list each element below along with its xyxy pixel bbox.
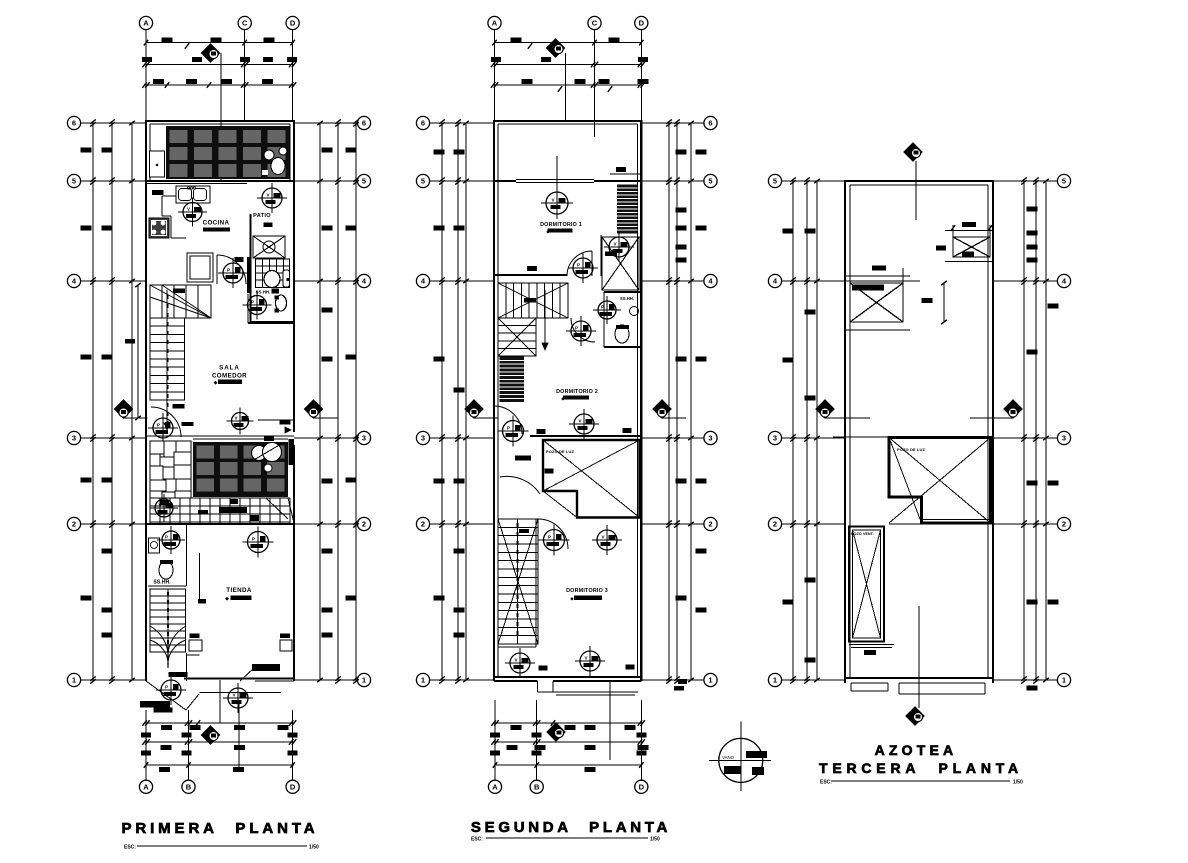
svg-text:3: 3: [421, 434, 425, 443]
svg-text:2: 2: [1062, 520, 1066, 529]
svg-text:5: 5: [421, 177, 425, 186]
svg-text:5: 5: [72, 177, 76, 186]
svg-text:1: 1: [362, 676, 366, 685]
svg-text:D: D: [290, 19, 296, 28]
svg-text:A: A: [143, 782, 149, 791]
svg-text:ESC:: ESC:: [124, 845, 136, 851]
svg-text:V: V: [601, 535, 604, 540]
svg-text:1: 1: [421, 676, 425, 685]
svg-text:SS.HH.: SS.HH.: [620, 296, 634, 301]
svg-text:POZO VENT.: POZO VENT.: [851, 532, 874, 536]
svg-text:V: V: [551, 198, 554, 203]
svg-text:P: P: [577, 263, 580, 268]
svg-text:A: A: [492, 19, 498, 28]
svg-text:ESC:: ESC:: [471, 837, 483, 843]
svg-text:1/50: 1/50: [1013, 780, 1023, 786]
svg-text:1: 1: [1062, 676, 1066, 685]
svg-text:◆: ◆: [546, 229, 550, 234]
svg-text:3: 3: [708, 434, 712, 443]
svg-text:5: 5: [708, 177, 712, 186]
svg-text:V: V: [187, 207, 190, 212]
svg-text:V: V: [234, 416, 237, 421]
svg-text:P: P: [165, 535, 168, 540]
svg-text:1: 1: [773, 676, 777, 685]
svg-text:D: D: [290, 782, 296, 791]
svg-text:P: P: [157, 423, 160, 428]
svg-text:COCINA: COCINA: [203, 220, 230, 227]
svg-text:◆: ◆: [225, 596, 229, 602]
svg-text:1: 1: [708, 676, 712, 685]
svg-text:A: A: [143, 19, 149, 28]
svg-text:PRIMERA PLANTA: PRIMERA PLANTA: [121, 820, 318, 837]
svg-text:◆: ◆: [210, 227, 214, 233]
svg-text:D: D: [639, 782, 645, 791]
svg-text:P: P: [548, 535, 551, 540]
svg-text:6: 6: [72, 119, 76, 128]
svg-text:6: 6: [708, 119, 712, 128]
svg-text:1: 1: [72, 676, 76, 685]
svg-text:B: B: [186, 782, 192, 791]
svg-text:DORMITORIO 1: DORMITORIO 1: [540, 222, 582, 228]
svg-text:V: V: [578, 419, 581, 424]
svg-text:P: P: [251, 300, 254, 305]
svg-text:TIENDA: TIENDA: [226, 587, 252, 594]
svg-text:2: 2: [773, 520, 777, 529]
svg-text:2: 2: [362, 520, 366, 529]
svg-text:VANO: VANO: [722, 755, 735, 760]
svg-text:DORMITORIO 3: DORMITORIO 3: [566, 588, 608, 594]
svg-text:V: V: [584, 656, 587, 661]
svg-text:V: V: [232, 693, 235, 698]
svg-text:P: P: [252, 537, 255, 542]
svg-text:B: B: [534, 782, 540, 791]
svg-text:5: 5: [773, 177, 777, 186]
svg-text:1/50: 1/50: [309, 845, 319, 851]
svg-text:5: 5: [362, 177, 366, 186]
svg-text:◆: ◆: [214, 380, 218, 386]
svg-text:1/50: 1/50: [650, 837, 660, 843]
svg-text:◆: ◆: [561, 396, 565, 401]
svg-text:SS.HH.: SS.HH.: [153, 580, 171, 586]
svg-text:A: A: [492, 782, 498, 791]
svg-text:◆: ◆: [570, 596, 574, 601]
svg-text:2: 2: [421, 520, 425, 529]
svg-text:3: 3: [1062, 434, 1066, 443]
svg-text:P: P: [165, 685, 168, 690]
svg-text:V: V: [266, 193, 269, 198]
svg-text:P: P: [575, 326, 578, 331]
svg-text:3: 3: [72, 434, 76, 443]
svg-text:COMEDOR: COMEDOR: [212, 373, 247, 380]
svg-text:TERCERA PLANTA: TERCERA PLANTA: [819, 760, 1023, 776]
svg-text:ESC:: ESC:: [820, 780, 832, 786]
svg-text:P: P: [507, 426, 510, 431]
svg-text:SS.HH.: SS.HH.: [256, 290, 271, 295]
svg-text:6: 6: [362, 119, 366, 128]
svg-text:SALA: SALA: [219, 365, 240, 372]
svg-text:C: C: [242, 19, 248, 28]
svg-text:DORMITORIO 2: DORMITORIO 2: [556, 389, 598, 395]
svg-text:V: V: [613, 242, 616, 247]
svg-text:V: V: [514, 658, 517, 663]
svg-text:2: 2: [708, 520, 712, 529]
svg-text:C: C: [592, 19, 598, 28]
svg-text:3: 3: [773, 434, 777, 443]
svg-text:AZOTEA: AZOTEA: [875, 742, 958, 758]
svg-text:PATIO: PATIO: [253, 213, 271, 219]
svg-text:5: 5: [1062, 177, 1066, 186]
svg-text:V: V: [158, 503, 161, 508]
svg-text:6: 6: [421, 119, 425, 128]
svg-text:P: P: [227, 268, 230, 273]
svg-text:3: 3: [362, 434, 366, 443]
svg-text:D: D: [639, 19, 645, 28]
svg-text:POZO DE LUZ: POZO DE LUZ: [897, 447, 925, 452]
svg-text:2: 2: [72, 520, 76, 529]
svg-text:POZO DE LUZ: POZO DE LUZ: [546, 449, 574, 454]
svg-text:SEGUNDA PLANTA: SEGUNDA PLANTA: [471, 819, 671, 836]
